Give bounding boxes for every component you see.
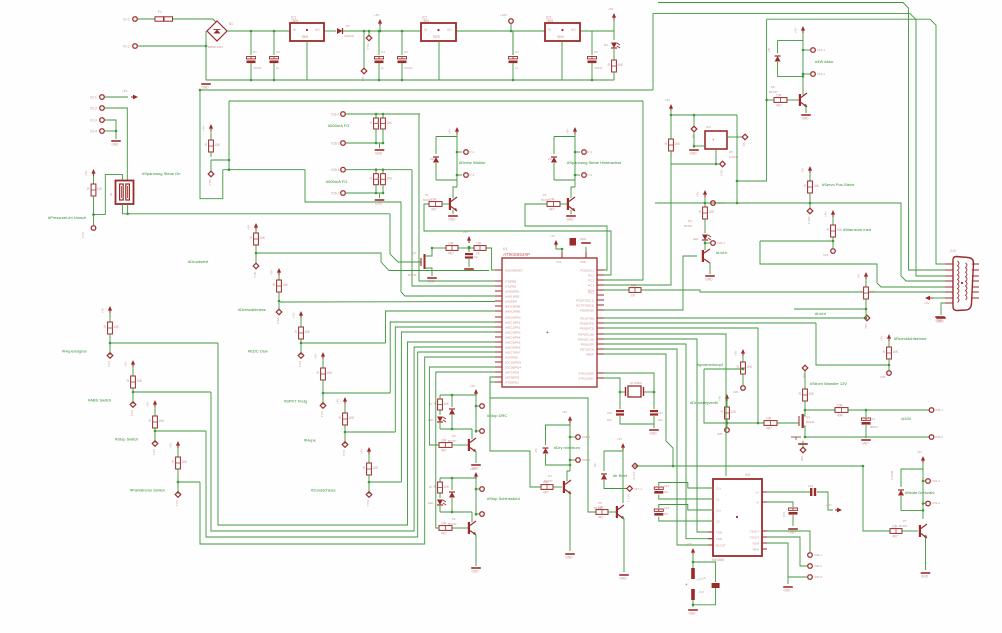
svg-text:+5V: +5V [608,7,613,11]
svg-text:GND: GND [449,218,457,222]
svg-text:X30-1: X30-1 [814,553,822,557]
svg-text:C4: C4 [381,50,385,54]
svg-text:+5V: +5V [247,225,251,230]
svg-text:+5V: +5V [794,28,798,33]
svg-text:BC327: BC327 [899,524,908,528]
svg-text:+5V: +5V [550,234,555,238]
svg-text:#gruenerknopf: #gruenerknopf [697,362,724,367]
svg-text:+5V: +5V [101,308,105,313]
svg-text:X15-1: X15-1 [331,168,340,172]
svg-text:B1: B1 [229,22,233,26]
svg-text:+5V: +5V [448,129,452,134]
svg-text:C15: C15 [808,484,814,488]
svg-text:+5V: +5V [566,129,570,134]
svg-text:PD3(INT1): PD3(INT1) [580,327,594,331]
svg-text:X3-1: X3-1 [175,500,179,507]
svg-text:F1: F1 [158,10,162,14]
svg-text:JP1: JP1 [361,77,365,83]
svg-text:10K: 10K [892,350,899,354]
svg-text:#4W Aktor: #4W Aktor [815,59,834,64]
svg-text:10K: 10K [431,197,438,201]
svg-text:#Hupe: #Hupe [304,438,317,443]
svg-text:T2IN: T2IN [716,537,722,541]
svg-text:ZD: ZD [548,157,552,161]
svg-text:C12: C12 [664,484,670,488]
svg-text:XTAL2/AD1: XTAL2/AD1 [578,377,594,381]
svg-text:4K7: 4K7 [448,252,454,256]
svg-text:(ICP)PD6: (ICP)PD6 [505,356,518,360]
svg-text:10K: 10K [441,438,448,442]
svg-text:#Drv minimum: #Drv minimum [554,445,580,450]
svg-text:X15-2: X15-2 [331,191,340,195]
svg-text:X17-1: X17-1 [634,487,642,491]
svg-text:GND: GND [580,237,586,241]
svg-text:IC6: IC6 [745,473,750,477]
svg-text:10K: 10K [892,524,899,528]
svg-text:VI: VI [548,28,551,32]
svg-text:ZD: ZD [430,157,434,161]
svg-text:C1: C1 [253,50,257,54]
svg-text:7805: 7805 [291,19,298,23]
svg-text:470uF: 470uF [404,66,413,70]
svg-text:X18-2: X18-2 [582,458,590,462]
svg-text:X7-2: X7-2 [586,173,593,177]
svg-text:P2: P2 [452,517,456,521]
svg-text:C5: C5 [404,50,408,54]
svg-text:GND: GND [375,152,383,156]
svg-text:X7-1: X7-1 [586,150,593,154]
svg-text:(OC1A)PD5: (OC1A)PD5 [505,361,521,365]
svg-text:X2-3: X2-3 [90,118,97,122]
svg-text:PC5: PC5 [588,291,594,295]
svg-text:4K7: 4K7 [776,104,782,108]
svg-text:Q4: Q4 [806,415,810,419]
svg-text:(ADC5)PA5: (ADC5)PA5 [505,341,521,345]
svg-text:10K: 10K [730,410,737,414]
svg-text:GND: GND [375,202,383,206]
svg-text:#500mA FG: #500mA FG [328,123,349,128]
svg-text:(MOSI)PB5: (MOSI)PB5 [505,305,521,309]
svg-text:MAX680: MAX680 [712,558,724,562]
svg-text:1u: 1u [515,66,519,70]
svg-text:+5V: +5V [336,399,340,404]
svg-text:#Ir Brief: #Ir Brief [613,473,628,478]
svg-text:#Drehzahlmess: #Drehzahlmess [238,307,266,312]
svg-text:680nF: 680nF [870,425,878,429]
svg-text:10K: 10K [304,330,311,334]
svg-text:T2OUT: T2OUT [750,535,759,539]
svg-text:4K7: 4K7 [892,535,898,539]
svg-text:X25: X25 [880,375,886,379]
svg-text:X9: X9 [742,143,746,147]
svg-text:C16: C16 [782,512,786,518]
svg-text:X3-1: X3-1 [107,361,111,368]
svg-text:BUZ11: BUZ11 [408,273,417,277]
svg-text:PD4(OC1B): PD4(OC1B) [578,333,594,337]
svg-text:X1-1: X1-1 [123,17,130,21]
svg-text:VI: VI [293,28,296,32]
svg-text:X31-1: X31-1 [932,479,940,483]
svg-text:X3-1: X3-1 [130,410,134,417]
svg-text:X7-2: X7-2 [468,173,475,177]
svg-text:GND: GND [202,86,210,90]
svg-text:PD1(TXD): PD1(TXD) [580,317,594,321]
svg-text:C2-: C2- [716,519,721,523]
svg-text:PD7(OC2): PD7(OC2) [580,348,594,352]
svg-text:ZD: ZD [767,48,771,52]
svg-text:X24: X24 [733,390,739,394]
svg-text:10K: 10K [443,402,450,406]
svg-text:10K: 10K [813,184,820,188]
svg-text:X17-1: X17-1 [627,494,631,502]
svg-text:#Druckregventil: #Druckregventil [690,400,718,405]
svg-text:10K: 10K [97,187,104,191]
svg-text:X9-2: X9-2 [720,170,724,177]
svg-text:X16-2: X16-2 [331,141,340,145]
svg-text:GND: GND [706,278,714,282]
svg-text:↓#24V: ↓#24V [900,416,912,421]
svg-text:+5V: +5V [917,450,922,454]
svg-text:X30-2: X30-2 [814,564,822,568]
svg-text:P7: P7 [903,519,907,523]
svg-text:10K: 10K [448,241,455,245]
svg-text:D1: D1 [346,24,350,28]
svg-text:P5: P5 [598,501,602,505]
svg-text:(INT1)PD3: (INT1)PD3 [505,371,520,375]
svg-text:#Servo Pos-Steue: #Servo Pos-Steue [822,182,855,187]
svg-text:P4: P4 [548,474,552,478]
svg-text:C1+: C1+ [716,486,722,490]
svg-text:X2-4: X2-4 [90,129,97,133]
svg-text:X7-1: X7-1 [468,150,475,154]
svg-text:1N4148: 1N4148 [890,470,894,480]
svg-text:+5V: +5V [292,313,296,318]
svg-text:V+: V+ [756,490,760,494]
svg-text:+5V: +5V [824,212,828,217]
svg-text:470uF: 470uF [594,66,603,70]
svg-text:10K: 10K [326,371,333,375]
svg-text:X17-2: X17-2 [632,472,636,480]
svg-text:#Mode Drehzahl: #Mode Drehzahl [905,490,934,495]
svg-text:#ParkBrems Switch: #ParkBrems Switch [130,488,165,493]
svg-text:X23: X23 [823,253,829,257]
svg-text:R1OUT: R1OUT [716,543,726,547]
svg-text:C11: C11 [658,411,663,415]
svg-text:#Stop Schlusslicht: #Stop Schlusslicht [487,496,521,501]
svg-text:X5-2: X5-2 [276,318,280,325]
svg-text:IC4: IC4 [706,125,711,129]
svg-text:X22-1: X22-1 [807,217,811,225]
svg-text:+5V: +5V [122,89,127,93]
svg-text:22p: 22p [607,418,612,422]
svg-text:7805: 7805 [557,35,564,39]
svg-text:40R: 40R [837,414,844,418]
svg-text:+5V: +5V [696,192,700,197]
svg-text:C14: C14 [870,417,876,421]
svg-text:LED: LED [693,237,698,241]
svg-text:+5V: +5V [801,168,805,173]
svg-text:ZD: ZD [534,448,538,452]
svg-text:GND: GND [620,577,628,581]
svg-text:+5V: +5V [880,336,884,341]
svg-text:P1: P1 [425,193,429,197]
svg-text:Q2: Q2 [412,251,416,255]
svg-text:X21: X21 [864,324,868,330]
svg-text:+5V: +5V [826,503,831,507]
svg-text:+5V: +5V [718,396,722,401]
svg-text:AREF: AREF [586,353,594,357]
svg-text:+5V: +5V [687,542,692,546]
svg-text:4K7: 4K7 [543,491,549,495]
svg-text:10K: 10K [674,142,681,146]
svg-text:10K: 10K [372,466,379,470]
svg-text:R1IN: R1IN [753,541,759,545]
svg-text:10K: 10K [282,283,289,287]
svg-text:C1-: C1- [716,497,721,501]
svg-text:1u: 1u [276,66,280,70]
svg-text:7805: 7805 [422,19,429,23]
svg-text:(ADC7)PA7: (ADC7)PA7 [505,351,521,355]
svg-text:BC337: BC337 [684,224,693,228]
svg-text:XTAL1/AD0: XTAL1/AD0 [578,372,594,376]
svg-text:GND: GND [937,320,945,324]
svg-text:+5V: +5V [562,410,567,414]
svg-text:X28-1: X28-1 [935,408,943,412]
svg-text:X6-1: X6-1 [208,180,212,187]
svg-text:+5V: +5V [924,301,929,305]
svg-text:7805: 7805 [301,35,308,39]
svg-text:+5V: +5V [84,171,88,176]
svg-text:#PressureLim Umsch: #PressureLim Umsch [48,215,86,220]
svg-text:10K: 10K [549,197,556,201]
svg-text:10K: 10K [598,505,605,509]
svg-text:X26: X26 [717,432,723,436]
svg-text:C8: C8 [594,50,598,54]
svg-text:X3-1: X3-1 [298,361,302,368]
svg-text:4K7: 4K7 [598,516,604,520]
svg-text:B250C1500: B250C1500 [208,45,223,49]
svg-text:X28-2: X28-2 [935,435,943,439]
svg-text:10u: 10u [664,512,669,516]
svg-text:VO: VO [571,28,576,32]
svg-text:X1-2: X1-2 [123,44,130,48]
svg-text:10K: 10K [776,93,783,97]
svg-text:#Hupensignal: #Hupensignal [62,349,87,354]
svg-text:10K: 10K [708,210,715,214]
svg-text:X14-1: X14-1 [817,48,825,52]
svg-text:10K: 10K [113,325,120,329]
svg-text:10K: 10K [746,365,753,369]
svg-text:GND: GND [784,589,792,593]
svg-text:10K: 10K [348,416,355,420]
svg-text:+5V: +5V [314,354,318,359]
svg-text:X31-2: X31-2 [932,501,940,505]
svg-text:(OC1B)PD4: (OC1B)PD4 [505,366,521,370]
svg-text:10K: 10K [214,143,221,147]
svg-text:Q1 8MHz: Q1 8MHz [630,381,642,385]
svg-text:X4-1: X4-1 [81,232,85,239]
svg-text:(AIN1)PB3: (AIN1)PB3 [505,295,520,299]
svg-text:P6: P6 [771,85,775,89]
svg-text:(ADC2)PA2: (ADC2)PA2 [505,326,521,330]
svg-text:1K: 1K [429,485,433,489]
svg-text:10K: 10K [617,63,624,67]
svg-text:PC3: PC3 [588,284,594,288]
svg-text:#Ruecklichtsensor: #Ruecklichtsensor [894,336,927,341]
svg-text:10K: 10K [808,392,815,396]
svg-text:#Warnsum med: #Warnsum med [843,227,871,232]
svg-text:4K7: 4K7 [441,532,447,536]
svg-text:+24V: +24V [500,13,507,17]
svg-text:#Spannung Steue Hinterachse: #Spannung Steue Hinterachse [567,160,622,165]
svg-text:P2: P2 [452,434,456,438]
svg-text:10K: 10K [441,521,448,525]
svg-text:X20-2: X20-2 [717,201,725,205]
svg-text:PC7(TOSC2): PC7(TOSC2) [576,304,594,308]
svg-text:R2IN: R2IN [753,547,759,551]
svg-text:(TXD)PD1: (TXD)PD1 [505,381,519,385]
svg-text:C17: C17 [699,590,705,594]
svg-text:7805: 7805 [433,35,440,39]
svg-text:D5: D5 [729,150,733,154]
svg-text:(ADC3)PA3: (ADC3)PA3 [505,331,521,335]
svg-text:C7: C7 [515,50,519,54]
svg-text:X3-1: X3-1 [342,450,346,457]
svg-text:+5V: +5V [470,467,475,471]
svg-text:4K7: 4K7 [441,449,447,453]
svg-text:PD6(ICP): PD6(ICP) [581,343,594,347]
svg-text:10K: 10K [136,379,143,383]
svg-text:470uF: 470uF [253,66,262,70]
svg-text:X3-1: X3-1 [152,449,156,456]
svg-text:+5V: +5V [202,126,206,131]
svg-text:V-: V- [756,500,759,504]
svg-text:+: + [546,330,549,336]
svg-text:GND: GND [650,432,658,436]
svg-text:T1IN: T1IN [716,530,722,534]
svg-text:D3: D3 [604,43,608,47]
svg-text:#500mA FG: #500mA FG [326,179,347,184]
svg-text:PC1: PC1 [588,274,594,278]
svg-text:X29: X29 [800,456,804,462]
svg-text:7805: 7805 [546,19,553,23]
svg-text:X2-2: X2-2 [90,106,97,110]
svg-text:LED: LED [428,501,433,505]
svg-text:VorEntk: VorEntk [344,34,354,38]
svg-text:10K: 10K [543,480,550,484]
svg-text:X3-1: X3-1 [320,411,324,418]
svg-text:10K: 10K [158,419,165,423]
svg-text:GND: GND [689,612,697,616]
svg-text:#Licht: #Licht [815,311,827,316]
svg-text:LED: LED [428,418,433,422]
svg-text:+5V: +5V [734,351,738,356]
svg-text:PD0(RXD): PD0(RXD) [580,309,594,313]
svg-text:GND: GND [921,575,929,579]
svg-text:PD2(INT0): PD2(INT0) [580,322,594,326]
svg-text:+: + [685,582,688,587]
svg-text:10K: 10K [386,121,393,125]
svg-text:VI: VI [424,28,427,32]
svg-text:#SPKT Freig: #SPKT Freig [284,399,307,404]
svg-text:#Stop Switch: #Stop Switch [115,437,138,442]
svg-text:U1: U1 [503,247,507,251]
svg-text:X10: X10 [950,249,956,253]
svg-text:P3: P3 [688,219,692,223]
svg-text:#EDC Osw: #EDC Osw [248,349,268,354]
svg-text:GND: GND [690,152,698,156]
svg-text:(AIN0)PB2: (AIN0)PB2 [505,290,520,294]
svg-text:(ADC6)PA6: (ADC6)PA6 [505,346,521,350]
svg-text:+5V: +5V [857,274,861,279]
svg-text:10K: 10K [259,236,266,240]
svg-text:10K: 10K [386,177,393,181]
svg-text:X5-1: X5-1 [253,272,257,279]
svg-text:1u: 1u [381,66,385,70]
svg-text:(SS)PB4: (SS)PB4 [505,300,517,304]
svg-text:#ABS Switch: #ABS Switch [88,398,111,403]
svg-text:#Licht: #Licht [716,250,728,255]
svg-text:+5V: +5V [169,443,173,448]
svg-text:(ADC0)PA0: (ADC0)PA0 [505,316,521,320]
svg-text:(AD0)RESET: (AD0)RESET [505,269,523,273]
svg-text:AT90S8535P: AT90S8535P [502,252,531,257]
svg-text:(T0)PB0: (T0)PB0 [505,280,517,284]
svg-text:10K: 10K [181,460,188,464]
svg-text:(ADC4)PA4: (ADC4)PA4 [505,336,521,340]
svg-text:+5V: +5V [146,402,150,407]
svg-text:PC0(SCL): PC0(SCL) [580,269,594,273]
svg-text:(MISO)PB6: (MISO)PB6 [505,310,521,314]
svg-text:PD5(OC1A): PD5(OC1A) [578,338,594,342]
svg-text:S1: S1 [109,192,113,196]
svg-text:10K: 10K [837,403,844,407]
svg-text:+5V: +5V [470,384,475,388]
svg-text:(T1)PB1: (T1)PB1 [505,285,517,289]
svg-text:PC2: PC2 [588,279,594,283]
svg-text:+5V: +5V [617,437,622,441]
svg-text:GND: GND [472,570,480,574]
svg-text:ZD: ZD [593,463,597,467]
svg-text:VCC: VCC [556,260,562,264]
svg-text:+8V: +8V [665,98,670,102]
svg-text:#Strom Wandler 12V: #Strom Wandler 12V [810,381,847,386]
svg-text:+5V: +5V [270,270,274,275]
svg-text:10K: 10K [766,416,773,420]
svg-text:PC6(TOSC1): PC6(TOSC1) [576,299,594,303]
svg-text:VDD: VDD [580,260,586,264]
svg-text:BUZ11: BUZ11 [806,420,815,424]
svg-text:(INT0)PD2: (INT0)PD2 [505,376,520,380]
svg-text:X16-1: X16-1 [331,112,340,116]
svg-text:10K: 10K [836,228,843,232]
svg-text:+5V: +5V [360,449,364,454]
svg-text:GND: GND [112,143,120,147]
svg-text:22p: 22p [658,418,663,422]
svg-text:10K: 10K [443,485,450,489]
svg-text:GND: GND [566,556,574,560]
svg-text:#Druckwert: #Druckwert [188,259,209,264]
svg-text:X14-2: X14-2 [817,72,825,76]
svg-text:GND: GND [428,280,436,284]
svg-text:+5V: +5V [124,362,128,367]
svg-text:#Spannung Steue On: #Spannung Steue On [142,171,180,176]
svg-text:10K: 10K [476,241,483,245]
svg-text:X3-1: X3-1 [366,44,370,51]
svg-text:X20-1: X20-1 [717,241,725,245]
svg-text:C2: C2 [276,50,280,54]
svg-text:#Zundschloss: #Zundschloss [311,488,336,493]
